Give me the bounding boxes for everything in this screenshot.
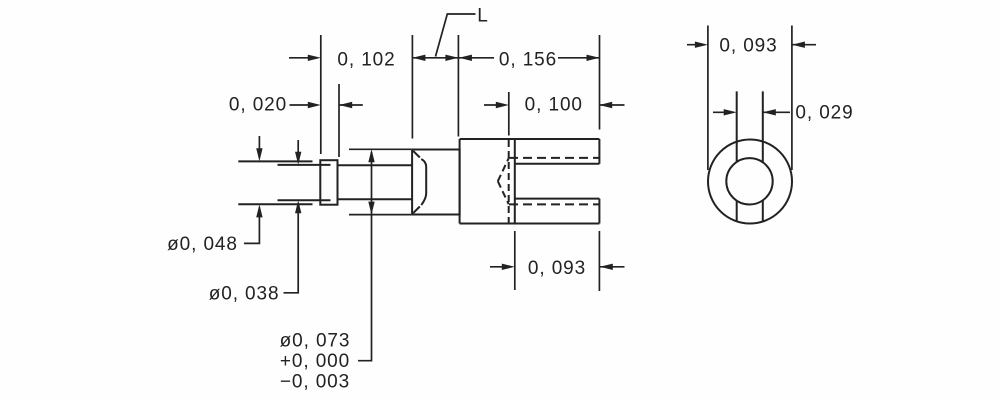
svg-text:L: L (477, 5, 488, 26)
svg-text:ø0, 048: ø0, 048 (167, 234, 238, 255)
dia 0.038 leader top (297, 140, 299, 162)
dimension 0.093 right view left arrow line (687, 44, 705, 46)
arrowhead dia038 bottom (295, 200, 301, 213)
dia 0.048 leader top (258, 136, 260, 158)
svg-text:−0, 003: −0, 003 (280, 372, 350, 393)
extension line hole depth x=508.8 (508, 92, 510, 136)
extension line E4 x=458.4 (457, 35, 459, 137)
dimension 0.102 left arrow (289, 57, 317, 59)
extension line E1 x=320.8 (320, 35, 322, 154)
dimension 0.029 right arrow line (763, 111, 790, 113)
dimension L line with arrows (412, 57, 458, 59)
arrowhead dia073 bottom (368, 202, 374, 215)
svg-text:0, 093: 0, 093 (719, 35, 777, 56)
arrowhead 0.093 bottom right (600, 264, 613, 270)
collar flange rectangle (320, 160, 337, 205)
svg-text:0, 100: 0, 100 (525, 94, 583, 115)
arrowhead dia048 bottom (256, 204, 262, 217)
extension line right view left (707, 26, 709, 171)
svg-text:0, 102: 0, 102 (337, 50, 395, 71)
dimension 0.093 bottom left arrow line (490, 266, 512, 268)
arrowhead 0.093 bottom left (502, 264, 515, 270)
arrowhead 0.029 right (763, 109, 776, 115)
svg-text:0, 093: 0, 093 (528, 258, 586, 279)
arrowhead dia038 top (295, 152, 301, 165)
arrowhead 0.100 left (496, 102, 509, 108)
fork slot edges (515, 164, 600, 199)
arrowhead 0.029 left (724, 109, 737, 115)
dimension 0.093 right view right arrow line (792, 44, 816, 46)
extension line E5 x=599.5 (599, 35, 601, 130)
pin lead outer diameter 0.048 lines (238, 161, 312, 204)
svg-text:ø0, 038: ø0, 038 (209, 284, 280, 305)
arrowhead 0.102 left (308, 55, 321, 61)
slot bottom edge vertical (514, 139, 516, 224)
dia 0.038 leader bottom (284, 204, 299, 293)
hidden drill cone dashed (498, 158, 509, 204)
dimension 0.029 left arrow line (713, 111, 734, 113)
arrowhead dia048 top (256, 148, 262, 161)
svg-text:+0, 000: +0, 000 (280, 351, 350, 372)
svg-text:0, 029: 0, 029 (795, 103, 853, 124)
dimension 0.100 left arrow line (484, 104, 505, 106)
hidden hole lines dashed (509, 158, 599, 205)
barrel section diameter 0.073 (412, 150, 460, 215)
fork prong end caps (598, 139, 600, 224)
main body outline (460, 139, 600, 224)
dia 0.073 extension bars (349, 148, 411, 150)
svg-text:0, 020: 0, 020 (229, 94, 287, 115)
extension line slot depth below (514, 231, 516, 290)
countersink entry chamfer (413, 151, 426, 213)
front view slot lines (737, 91, 763, 221)
hidden hole shoulder vertical dashed (508, 140, 510, 223)
front view inner circle (726, 158, 772, 204)
arrowhead 0.156 right (587, 55, 600, 61)
dimension 0.100 right arrow line (599, 104, 624, 106)
extension line bottom right (598, 231, 600, 291)
extension line right view right (791, 26, 793, 171)
dimension 0.156 right segment (558, 57, 600, 59)
pin tip diameter 0.038 lines (278, 165, 331, 200)
arrowhead L left (412, 55, 425, 61)
dia 0.048 leader bottom (244, 208, 259, 244)
arrowhead 0.093 right view left (695, 42, 708, 48)
arrowhead 0.156 left (459, 55, 472, 61)
svg-text:ø0, 073: ø0, 073 (280, 331, 351, 352)
arrowhead 0.020 left (308, 102, 321, 108)
dimension 0.156 left segment (459, 57, 494, 59)
leader L (436, 14, 476, 57)
dia 0.073 dimension vertical and leader (358, 152, 372, 361)
dimension 0.020 left arrow line (290, 104, 318, 106)
arrowhead 0.100 right (599, 102, 612, 108)
arrowhead dia073 top (368, 149, 374, 162)
svg-text:0, 156: 0, 156 (499, 50, 557, 71)
shaft lines (338, 165, 413, 199)
dimension 0.093 bottom right arrow line (600, 266, 625, 268)
front view outer circle (708, 140, 792, 224)
arrowhead L right (445, 55, 458, 61)
arrowhead 0.093 right view right (792, 42, 805, 48)
dimension 0.020 right arrow line (339, 104, 363, 106)
extension line E2 x=339 (338, 84, 340, 157)
arrowhead 0.020 right (339, 102, 352, 108)
extension line E3 x=412.4 (411, 35, 413, 139)
